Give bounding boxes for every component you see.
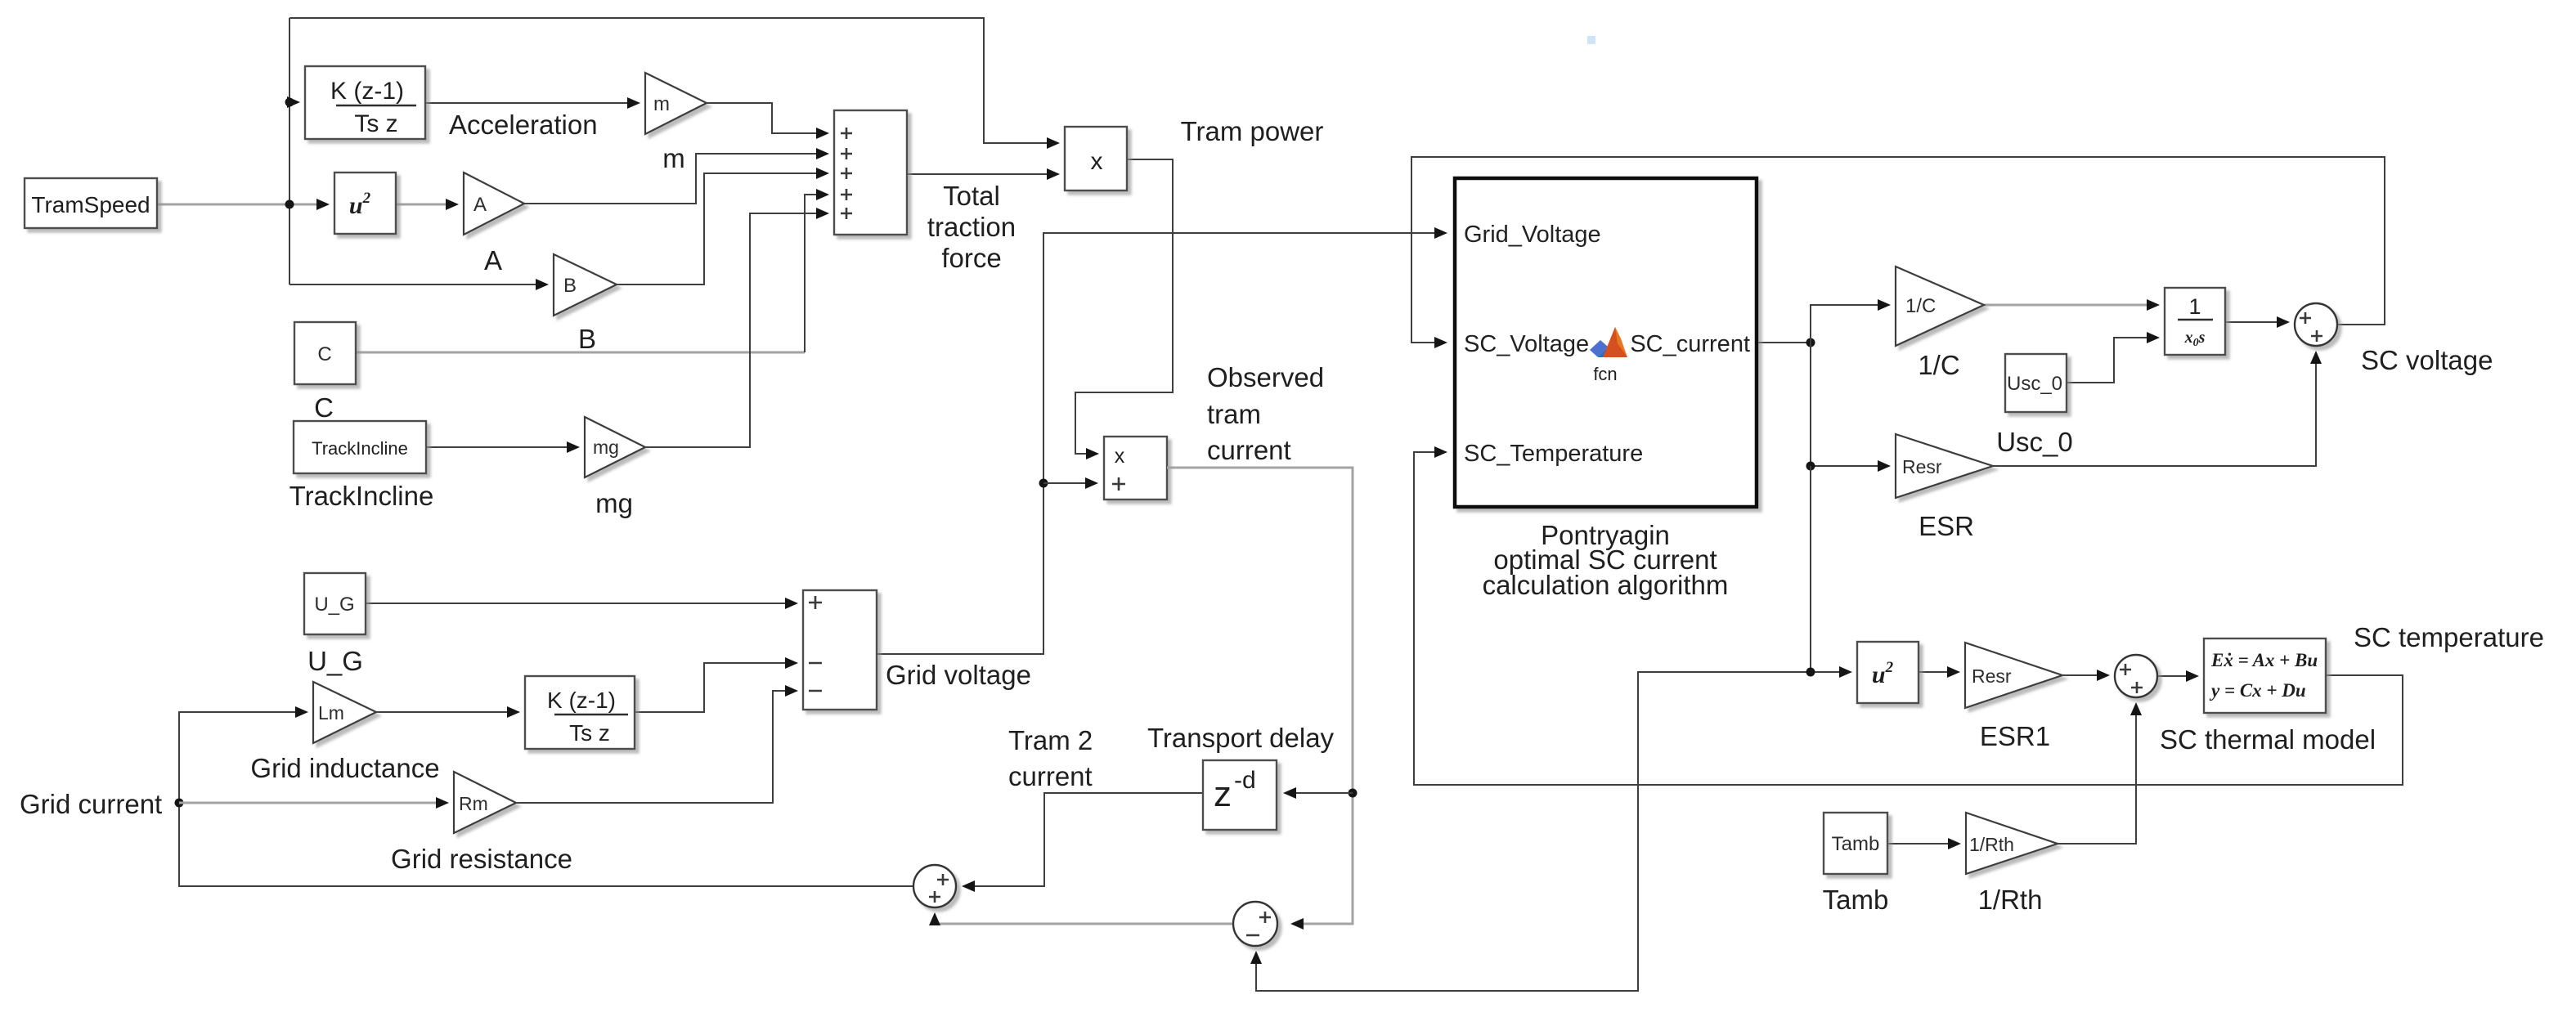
block SC thermal model state space <box>2204 638 2326 713</box>
wire: TramSpeed feedback top line to Tram power input 1 <box>289 18 1057 143</box>
wire: discrete derivative output to Grid voltage sum input 2 <box>635 663 796 712</box>
block integrator 1/x0s <box>2165 288 2225 355</box>
node: junction on Grid current wire <box>175 799 184 808</box>
block Pontryagin MATLAB function <box>1455 178 1757 507</box>
sum block Total traction force <box>834 110 907 235</box>
sum circle subtract (tram 2 current minus SC current) <box>1233 902 1277 946</box>
wire: gain mg output to sum input 5 <box>645 213 827 447</box>
svg-text:current: current <box>1008 761 1093 791</box>
svg-text:Ts z: Ts z <box>354 110 397 137</box>
constant U_G <box>304 573 366 634</box>
wire: TramSpeed vertical branch <box>289 18 290 284</box>
svg-text:Grid_Voltage: Grid_Voltage <box>1464 222 1601 248</box>
decorative blue pixel <box>1587 36 1595 44</box>
wire: sum output to Tram power input 2 <box>907 173 1057 175</box>
svg-text:Tram power: Tram power <box>1181 116 1324 146</box>
product block Tram power <box>1065 127 1127 190</box>
svg-text:TrackIncline: TrackIncline <box>289 481 434 511</box>
svg-text:A: A <box>484 245 502 276</box>
svg-text:TramSpeed: TramSpeed <box>31 192 150 217</box>
wire: SC current feedback to subtract sum bottom input <box>1256 672 1811 991</box>
node: junction on TramSpeed line <box>285 200 294 209</box>
wire: branch into Transport delay (right to left) <box>1286 792 1353 794</box>
wire: SC current branch down to u2 squarer <box>1811 466 1850 672</box>
svg-text:-d: -d <box>1234 767 1256 794</box>
svg-text:TrackIncline: TrackIncline <box>312 438 408 459</box>
svg-text:SC_current: SC_current <box>1630 331 1750 357</box>
wire: Acceleration output to gain m <box>425 102 638 104</box>
svg-text:Tram 2: Tram 2 <box>1008 725 1093 755</box>
svg-text:ESR: ESR <box>1919 511 1974 541</box>
svg-text:U_G: U_G <box>307 646 363 676</box>
gain Lm (Grid inductance) <box>313 682 376 743</box>
svg-text:m: m <box>653 93 670 115</box>
svg-text:m: m <box>662 143 685 173</box>
svg-text:z: z <box>1214 774 1232 814</box>
gain ESR <box>1896 434 1993 498</box>
wire: branch to gain B <box>289 284 546 285</box>
node: junction at Acceleration input <box>285 98 294 107</box>
wire: SC voltage output feedback to Pontryagin SC_Voltage input <box>1411 157 2385 343</box>
svg-text:Total: Total <box>943 181 1000 211</box>
wire: Usc_0 output to integrator initial condition input <box>2067 338 2157 383</box>
block discrete derivative K(z-1)/Ts z (grid) <box>525 676 635 749</box>
wire: gain B output to sum input 3 <box>617 173 827 284</box>
wire: gain ESR output to SC voltage sum bottom input <box>1993 353 2316 466</box>
svg-text:1/C: 1/C <box>1918 350 1959 380</box>
gain ESR1 <box>1965 643 2062 708</box>
sum circle SC voltage <box>2295 303 2337 346</box>
svg-text:1/Rth: 1/Rth <box>1969 834 2014 855</box>
icon MATLAB logo <box>1590 327 1627 357</box>
svg-text:x: x <box>1115 445 1125 468</box>
svg-text:x: x <box>1091 148 1103 175</box>
block Transport delay Z^-d <box>1203 760 1277 830</box>
wire: SC current branch down to gain ESR <box>1811 343 1888 466</box>
wire: Observed tram current output down to subtract sum <box>1167 468 1353 924</box>
wire: U_G output to Grid voltage sum input 1 <box>366 603 796 604</box>
svg-text:1: 1 <box>2188 294 2201 319</box>
svg-text:B: B <box>578 324 596 354</box>
svg-text:Usc_0: Usc_0 <box>2007 373 2062 395</box>
svg-text:Lm: Lm <box>318 702 344 724</box>
wire: integrator output to SC voltage sum <box>2225 321 2287 323</box>
svg-text:force: force <box>941 243 1001 273</box>
svg-text:mg: mg <box>593 437 619 458</box>
wire: Tamb output to gain 1/Rth <box>1887 843 1959 845</box>
svg-text:SC_Temperature: SC_Temperature <box>1464 441 1643 467</box>
gain 1/C <box>1896 267 1984 346</box>
wire: TrackIncline output to gain mg <box>426 446 577 448</box>
gain B <box>554 254 617 316</box>
constant Usc_0 <box>2005 354 2067 412</box>
wire: Grid current branch to gain Rm <box>179 802 447 804</box>
svg-text:Usc_0: Usc_0 <box>1996 427 2073 457</box>
svg-text:calculation algorithm: calculation algorithm <box>1483 570 1729 600</box>
wire: gain Lm output to discrete derivative <box>376 711 518 713</box>
svg-text:Grid voltage: Grid voltage <box>886 660 1031 690</box>
wire: Transport delay output (Tram 2 current) to add sum right input <box>964 793 1203 886</box>
svg-text:Grid resistance: Grid resistance <box>391 844 572 874</box>
wire: u2 output to gain ESR1 <box>1919 671 1958 673</box>
node: junction at ESR branch <box>1806 462 1815 471</box>
svg-text:SC voltage: SC voltage <box>2361 345 2493 375</box>
svg-text:SC thermal model: SC thermal model <box>2160 724 2376 755</box>
svg-text:K (z-1): K (z-1) <box>330 78 404 105</box>
svg-text:B: B <box>563 275 577 297</box>
block Acceleration (discrete derivative K(z-1)/Ts z) <box>305 66 425 139</box>
wire: subtract sum output to add sum bottom input <box>935 915 1233 924</box>
wire: gain Rm output to Grid voltage sum input 3 <box>516 691 796 803</box>
wire: branch into Acceleration block <box>289 101 298 103</box>
wire: Tram power output to Observed tram current divider <box>1075 159 1173 454</box>
wire: Grid current to gain Lm <box>179 712 913 886</box>
svg-text:Resr: Resr <box>1972 665 2012 687</box>
svg-text:traction: traction <box>927 212 1016 242</box>
wire: gain 1/Rth output to thermal sum bottom input <box>2058 705 2136 844</box>
gain A <box>464 172 524 235</box>
svg-text:fcn: fcn <box>1593 364 1617 384</box>
gain Rm (Grid resistance) <box>454 772 516 833</box>
svg-text:SC temperature: SC temperature <box>2354 622 2544 652</box>
wire: thermal sum output to SC thermal model <box>2157 675 2197 677</box>
svg-text:C: C <box>314 392 334 423</box>
svg-text:Grid current: Grid current <box>20 789 162 819</box>
wire: gain A output to sum input 2 <box>524 154 827 204</box>
svg-text:ESR1: ESR1 <box>1980 721 2050 751</box>
constant C <box>294 322 356 384</box>
svg-text:1/C: 1/C <box>1905 295 1936 317</box>
svg-text:Tamb: Tamb <box>1832 833 1880 855</box>
gain m <box>645 73 707 134</box>
svg-text:SC_Voltage: SC_Voltage <box>1464 331 1589 357</box>
svg-text:Tamb: Tamb <box>1823 885 1889 915</box>
svg-text:Observed: Observed <box>1207 362 1324 392</box>
svg-text:y = Cx + Du: y = Cx + Du <box>2209 680 2306 701</box>
svg-text:mg: mg <box>595 488 633 518</box>
inport TramSpeed <box>25 178 157 228</box>
gain 1/Rth <box>1966 813 2058 874</box>
wire: gain m output to sum input 1 <box>707 103 827 133</box>
node: junction at u2 branch <box>1806 668 1815 677</box>
svg-text:Ts z: Ts z <box>569 720 610 746</box>
wire: gain 1/C output to integrator <box>1984 304 2157 307</box>
svg-text:Rm: Rm <box>459 793 488 814</box>
svg-text:1/Rth: 1/Rth <box>1978 885 2043 915</box>
divide block Observed tram current <box>1104 437 1167 500</box>
svg-text:A: A <box>473 194 487 216</box>
wire: u2 output to gain A <box>396 204 456 206</box>
gain mg <box>585 417 645 477</box>
wire: SC thermal model output feedback to Pontryagin SC_Temperature input <box>1414 452 2403 785</box>
node: junction at Transport delay input <box>1349 789 1358 798</box>
wire: Grid voltage output to Pontryagin Grid_Voltage input <box>877 233 1445 654</box>
svg-text:C: C <box>317 343 331 365</box>
svg-text:Eẋ = Ax + Bu: Eẋ = Ax + Bu <box>2210 650 2318 670</box>
node: junction SC current <box>1806 338 1815 347</box>
svg-text:Resr: Resr <box>1902 456 1942 477</box>
svg-text:Acceleration: Acceleration <box>449 110 598 140</box>
block u2 square <box>334 172 396 234</box>
wire: TramSpeed output to u2 <box>157 204 327 206</box>
wire: constant C output to sum input 4 <box>356 352 805 354</box>
constant Tamb <box>1824 813 1887 874</box>
sum circle add (tram currents) <box>913 865 956 907</box>
node: junction on Grid voltage wire <box>1039 479 1048 488</box>
constant TrackIncline <box>294 421 426 473</box>
wire: gain ESR1 output to thermal sum <box>2062 674 2107 676</box>
svg-text:U_G: U_G <box>314 594 354 616</box>
wire: SC_current output from Pontryagin <box>1757 342 1811 343</box>
sum circle thermal <box>2115 655 2157 697</box>
block u2 squarer (SC current) <box>1857 642 1919 703</box>
svg-text:K (z-1): K (z-1) <box>547 688 616 713</box>
svg-text:Transport delay: Transport delay <box>1147 723 1335 753</box>
sum block Grid voltage <box>803 590 877 710</box>
svg-text:tram: tram <box>1207 399 1261 429</box>
wire: SC current branch up to gain 1/C <box>1811 305 1888 343</box>
svg-text:current: current <box>1207 435 1291 465</box>
svg-text:Grid inductance: Grid inductance <box>250 753 439 783</box>
wire: Grid voltage branch to divider input 2 <box>1043 482 1096 484</box>
